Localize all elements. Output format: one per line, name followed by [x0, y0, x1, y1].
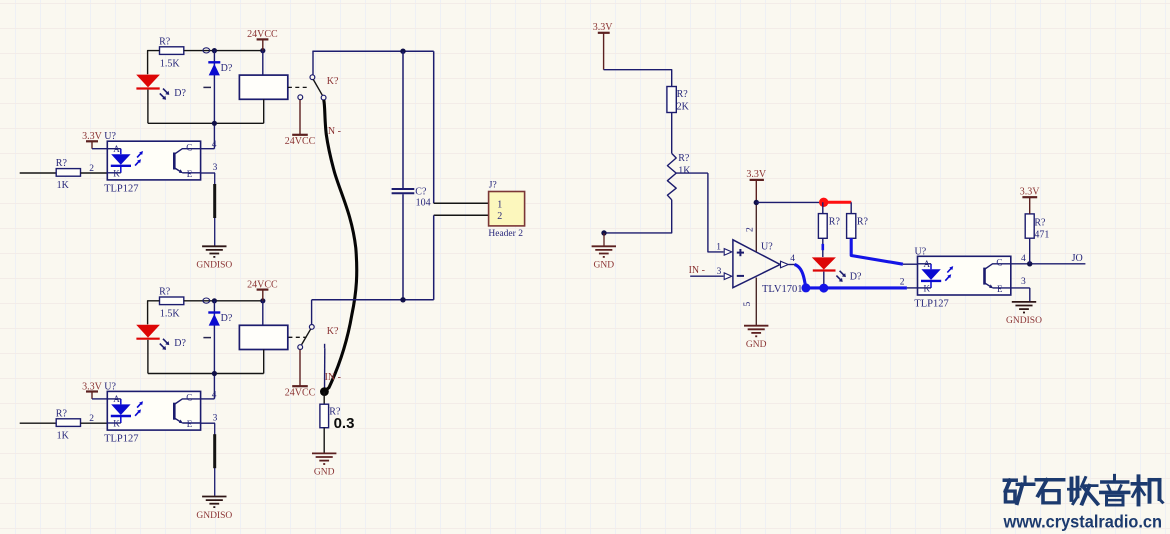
wire input stub	[20, 172, 57, 174]
svg-text:R?: R?	[829, 217, 841, 228]
svg-text:GND: GND	[594, 261, 615, 271]
pin 1 arrow	[724, 249, 732, 256]
wire	[148, 51, 160, 75]
svg-text:D?: D?	[174, 88, 186, 99]
svg-text:3: 3	[1021, 277, 1026, 287]
wire wiper to pin1	[708, 173, 724, 252]
potentiometer R? 1K	[667, 153, 708, 200]
svg-text:A: A	[113, 394, 120, 404]
pin 4 wire	[201, 123, 217, 150]
power 24VCC	[247, 29, 278, 50]
svg-text:24VCC: 24VCC	[285, 136, 316, 147]
svg-text:4: 4	[212, 390, 217, 400]
svg-text:1: 1	[497, 200, 502, 211]
power 24VCC switch 2	[285, 350, 316, 399]
svg-text:0.3: 0.3	[334, 415, 355, 432]
wire	[184, 50, 263, 52]
svg-text:U?: U?	[104, 131, 116, 142]
power 3.3V	[82, 131, 107, 149]
svg-text:JO: JO	[1072, 253, 1083, 264]
svg-text:2: 2	[89, 164, 94, 174]
ground GNDISO out	[1006, 302, 1042, 326]
svg-text:3.3V: 3.3V	[1020, 187, 1041, 198]
svg-text:1: 1	[716, 242, 721, 252]
svg-text:2: 2	[497, 211, 502, 222]
svg-text:3: 3	[213, 163, 218, 173]
connector J? Header 2	[488, 181, 524, 239]
svg-text:R?: R?	[56, 408, 68, 419]
svg-text:K: K	[113, 169, 120, 179]
svg-text:C: C	[186, 393, 192, 403]
svg-text:GNDISO: GNDISO	[1006, 316, 1042, 326]
node IN-	[320, 387, 329, 396]
wire	[900, 277, 918, 288]
wire header	[434, 51, 489, 300]
svg-text:GNDISO: GNDISO	[196, 511, 232, 521]
pin 5 wire	[755, 278, 757, 326]
switch K? relay contact 2	[288, 300, 339, 391]
svg-text:A: A	[924, 259, 931, 269]
pin 2 wire	[755, 202, 757, 251]
svg-text:K?: K?	[327, 326, 339, 337]
svg-text:104: 104	[416, 198, 431, 209]
svg-text:E: E	[187, 169, 193, 179]
svg-text:D?: D?	[221, 313, 233, 324]
resistor R? 0.3	[320, 392, 355, 453]
diode D? clamp	[203, 51, 232, 124]
ground GND	[312, 453, 336, 477]
svg-text:4: 4	[212, 140, 217, 150]
net label IN-	[325, 126, 341, 137]
svg-text:C: C	[186, 143, 192, 153]
relay K? coil	[239, 51, 287, 124]
wire squiggle IN-	[324, 100, 357, 391]
svg-text:E: E	[187, 419, 193, 429]
pin 4 output arrow	[781, 254, 796, 268]
power 3.3V	[82, 381, 107, 399]
pin 3 wire	[201, 413, 218, 495]
node red	[819, 198, 828, 207]
pin 4 wire out	[1011, 254, 1086, 264]
node	[203, 48, 217, 53]
pin 3 wire	[201, 163, 218, 245]
svg-text:GND: GND	[314, 468, 335, 478]
LED D? red	[136, 75, 186, 124]
svg-text:D?: D?	[221, 63, 233, 74]
watermark 矿石收音机	[1005, 475, 1163, 505]
svg-text:1K: 1K	[57, 180, 70, 191]
wire contact bottom	[312, 299, 434, 301]
svg-text:D?: D?	[174, 338, 186, 349]
switch K? relay contact	[288, 51, 339, 100]
diode D? clamp	[203, 301, 232, 374]
svg-text:R?: R?	[1034, 218, 1046, 229]
svg-text:1.5K: 1.5K	[160, 309, 181, 320]
svg-text:C: C	[996, 258, 1002, 268]
node	[400, 297, 405, 302]
svg-text:TLP127: TLP127	[104, 434, 138, 445]
svg-text:TLP127: TLP127	[104, 183, 138, 194]
svg-text:IN -: IN -	[325, 372, 341, 383]
svg-text:U?: U?	[104, 381, 116, 392]
wire input stub	[20, 422, 57, 424]
net label IN- 2	[325, 372, 341, 383]
node	[260, 48, 265, 53]
net label JO	[1072, 253, 1083, 264]
svg-text:C?: C?	[415, 187, 427, 198]
svg-text:2: 2	[900, 277, 905, 287]
LED D? output	[812, 238, 862, 287]
svg-text:J?: J?	[489, 181, 497, 191]
power 24VCC	[247, 279, 278, 300]
relay K? coil	[239, 301, 287, 374]
svg-text:R?: R?	[857, 217, 869, 228]
resistor R? 1.5K	[159, 36, 184, 69]
power 3.3V right	[593, 22, 614, 70]
svg-text:A: A	[113, 144, 120, 154]
resistor R? pullup2	[847, 202, 869, 238]
svg-text:R?: R?	[678, 153, 690, 164]
svg-text:R?: R?	[159, 36, 171, 47]
svg-text:5: 5	[743, 302, 753, 307]
node blue 2	[819, 284, 828, 293]
svg-text:3: 3	[213, 413, 218, 423]
wire bottom	[148, 373, 264, 375]
node	[400, 49, 405, 54]
watermark url	[1003, 512, 1162, 532]
ground GND divider	[592, 233, 616, 271]
node	[1027, 261, 1032, 266]
node	[212, 371, 217, 376]
wire	[184, 300, 263, 302]
svg-text:2: 2	[89, 414, 94, 424]
svg-text:R?: R?	[56, 158, 68, 169]
node	[260, 298, 265, 303]
svg-text:24VCC: 24VCC	[285, 388, 316, 399]
pin 4 wire	[201, 374, 217, 401]
ground GNDISO	[196, 497, 232, 521]
optocoupler U? TLP127	[104, 381, 201, 444]
wire contact top	[312, 50, 433, 52]
optocoupler U? TLP127	[104, 131, 201, 194]
svg-text:D?: D?	[850, 272, 862, 283]
node	[754, 200, 759, 205]
pin 3 arrow	[724, 273, 732, 280]
resistor R? 1.5K	[159, 287, 184, 320]
svg-text:3: 3	[717, 267, 722, 277]
svg-text:R?: R?	[159, 287, 171, 298]
node	[203, 298, 217, 303]
svg-text:1K: 1K	[678, 165, 691, 176]
wire blue diagonal	[851, 238, 917, 264]
resistor R? 1K	[56, 158, 108, 191]
wire	[756, 201, 819, 203]
svg-text:2: 2	[746, 227, 756, 232]
svg-text:1.5K: 1.5K	[160, 58, 181, 69]
wire	[604, 70, 672, 87]
svg-text:U?: U?	[915, 246, 927, 257]
wire blue output	[795, 265, 806, 288]
svg-text:U?: U?	[761, 241, 773, 252]
wire	[671, 113, 673, 154]
wire blue	[806, 286, 907, 289]
wire bottom	[148, 122, 264, 124]
power 24VCC switch	[285, 100, 316, 148]
svg-text:3.3V: 3.3V	[746, 169, 767, 180]
power 3.3V out	[1020, 187, 1041, 214]
svg-text:3.3V: 3.3V	[593, 22, 614, 33]
svg-text:GNDISO: GNDISO	[196, 261, 232, 271]
svg-text:www.crystalradio.cn: www.crystalradio.cn	[1003, 512, 1162, 532]
svg-text:GND: GND	[746, 340, 767, 350]
ground GNDISO	[196, 246, 232, 270]
wire	[604, 200, 672, 233]
power 3.3V opamp	[746, 169, 767, 202]
svg-text:K?: K?	[327, 76, 339, 87]
svg-text:TLV1701: TLV1701	[762, 284, 802, 295]
svg-text:R?: R?	[677, 89, 689, 100]
node	[601, 230, 606, 235]
svg-text:K: K	[113, 419, 120, 429]
svg-text:E: E	[997, 284, 1003, 294]
svg-text:2K: 2K	[677, 102, 690, 113]
svg-text:IN -: IN -	[689, 265, 705, 276]
svg-text:4: 4	[1021, 254, 1026, 264]
op-amp U? TLV1701	[733, 227, 803, 307]
svg-text:471: 471	[1034, 230, 1049, 241]
resistor R? 471	[1025, 214, 1049, 264]
capacitor C? 104	[392, 51, 431, 300]
resistor R? 1K	[56, 408, 108, 441]
net label IN- comparator	[689, 265, 724, 277]
svg-text:K: K	[924, 284, 931, 294]
wire	[148, 301, 160, 325]
LED D? red	[136, 325, 186, 374]
pin 3 wire out	[1011, 277, 1030, 302]
wire red	[826, 201, 851, 204]
resistor R? pullup1	[818, 202, 840, 238]
svg-text:1K: 1K	[57, 430, 70, 441]
resistor R? 2K	[667, 87, 690, 113]
optocoupler U? TLP127 out	[914, 246, 1011, 309]
svg-text:TLP127: TLP127	[914, 299, 948, 310]
svg-text:Header 2: Header 2	[488, 229, 523, 239]
node blue	[801, 283, 810, 292]
node	[212, 121, 217, 126]
svg-text:4: 4	[790, 254, 795, 264]
ground GND opamp	[744, 326, 768, 350]
